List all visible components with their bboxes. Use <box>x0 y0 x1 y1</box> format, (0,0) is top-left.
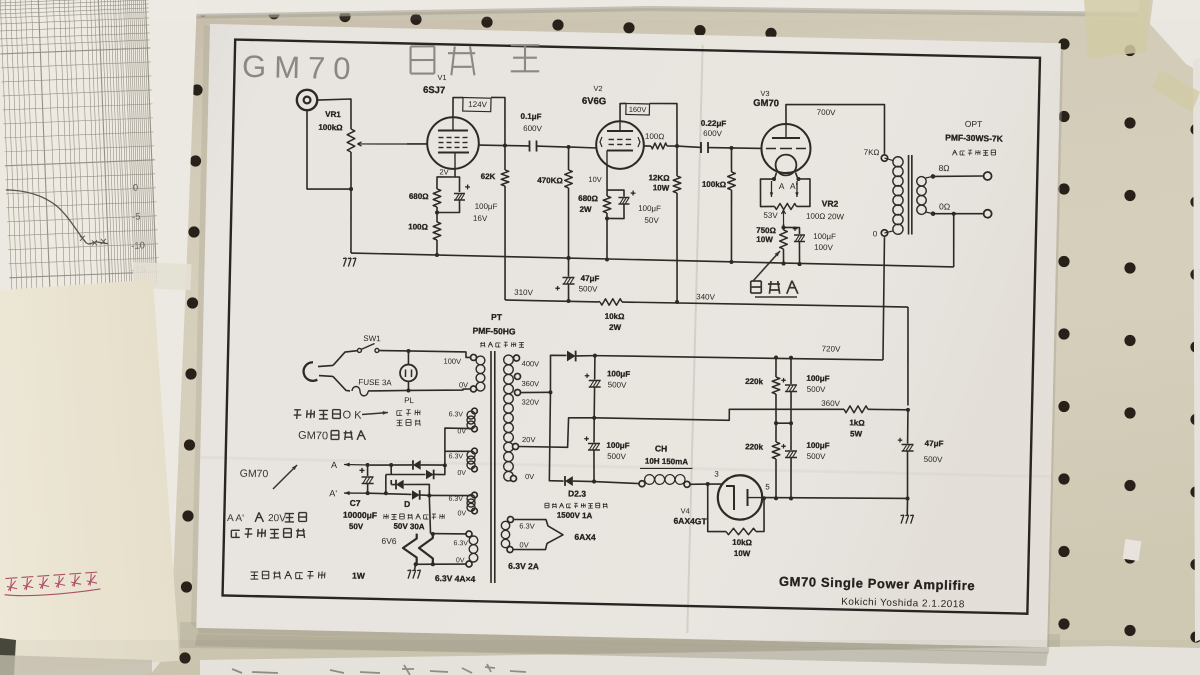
V2 internal electrodes <box>607 130 633 131</box>
wire D2.3 out to choke <box>594 482 639 484</box>
resistor 100k grid leak V3 <box>731 148 732 172</box>
ground bus <box>351 253 954 267</box>
node wiper <box>782 224 784 227</box>
wire 20V tap <box>519 416 595 448</box>
wire VR1 node to ground bus <box>350 189 353 253</box>
OPT primary winding <box>884 158 893 160</box>
resistor 1k 5W <box>844 405 868 413</box>
secondary 8ohm tap <box>926 176 933 178</box>
diode D1b row2 <box>390 465 393 475</box>
pennant outline <box>513 519 564 551</box>
tape diagonal right <box>1152 70 1200 112</box>
tube V3 GM70 <box>761 123 811 173</box>
OPT primary top terminal <box>881 155 888 162</box>
tape on left papers <box>133 262 192 290</box>
shadow band under main paper bottom <box>180 622 1060 660</box>
resistor 470K grid leak <box>568 147 569 170</box>
node 720V first <box>593 354 597 358</box>
capacitor 47uF 500V output <box>907 410 908 444</box>
fuse FUSE 3A <box>352 386 368 396</box>
capacitor 0.22uF coupling <box>677 146 701 147</box>
node 360V/340V <box>906 408 910 412</box>
diode D rect <box>567 351 576 362</box>
capacitor 100uF 16V V1 bypass <box>455 177 460 192</box>
red handwritten note <box>3 572 100 598</box>
resistor 100ohm stopper <box>644 145 651 147</box>
resistor 220k (2) <box>775 423 778 442</box>
node V1 plate <box>503 143 507 147</box>
capacitor 100uF 100V <box>783 227 799 234</box>
capacitor 100uF 500V (4) <box>790 423 791 450</box>
node d1 out <box>443 463 447 467</box>
wire A-prime line with arrow <box>344 492 368 495</box>
wire to W3 terminal <box>429 495 471 497</box>
PT HV secondary winding <box>504 355 514 365</box>
handwritten note adjust (kanji) w/ arrow <box>753 250 780 281</box>
V3 filament circle <box>775 154 796 175</box>
wire heater bottom lead <box>416 563 466 566</box>
node A-prime / heater <box>427 493 431 497</box>
node 12K bottom <box>675 300 679 304</box>
wire OPT bottom to 720V rail (crossings) <box>882 237 886 360</box>
wire to W1 0V <box>444 428 471 466</box>
node coupling/470K <box>566 145 570 149</box>
main schematic paper shadow <box>198 29 1063 653</box>
node V3 grid / 100k <box>729 146 733 150</box>
wire 320V up to diode <box>550 355 567 393</box>
wire 62K to 310V rail (crosses gnd bus) <box>502 186 507 300</box>
wire 340V rail down to 360V node <box>906 307 910 406</box>
input jack J1 <box>297 90 318 111</box>
wire to V3 <box>731 147 761 150</box>
wire jack sleeve down <box>305 110 353 190</box>
dark bottom-left corner <box>0 638 16 675</box>
resistor 100ohm V1 <box>433 222 441 240</box>
wire box to 12K column <box>648 103 677 146</box>
wire to node <box>436 207 438 213</box>
ground at 47uF <box>906 498 908 514</box>
HV taps <box>513 355 519 361</box>
V2 cathode network <box>606 166 607 197</box>
PT heater windings 6.3V x3 <box>472 408 478 414</box>
wire 20V line to 360V jog <box>594 404 844 424</box>
winding W4 6V6 heaters <box>466 531 472 537</box>
secondary 0ohm tap <box>925 212 933 214</box>
capacitor 0.1uF coupling <box>505 144 529 147</box>
potentiometer VR2 on box bottom <box>774 203 796 210</box>
wire d2 branch down to A-prime <box>384 474 387 493</box>
filament box <box>760 179 775 207</box>
wire V1 plate to node <box>479 144 505 147</box>
tube V1 6SJ7 <box>427 117 480 170</box>
wire SW1 to winding <box>379 349 408 352</box>
node 47uF-A top <box>566 256 570 260</box>
wire to V2 grid <box>569 147 597 148</box>
mid tie node <box>774 421 778 425</box>
V2 plate top lead <box>620 103 626 121</box>
wire node down to 6V6 heater lead <box>428 495 431 533</box>
OPT primary bottom terminal <box>881 230 888 237</box>
V4 internals <box>725 486 734 510</box>
left white backing paper <box>0 0 197 675</box>
tube V2 6V6G <box>596 121 645 170</box>
node jack/VR1 ground <box>349 187 353 191</box>
capacitor 47uF 500V decoupling <box>567 258 570 277</box>
capacitor 100uF 500V (1) <box>593 356 596 380</box>
wire 320V tap <box>521 392 551 394</box>
B+ rail 310V/340V <box>505 299 600 302</box>
V1 plate top lead <box>453 97 463 117</box>
OPT secondary winding <box>917 176 927 186</box>
bottom neighbour paper strip <box>200 646 1200 675</box>
VR1 wiper arrow <box>357 143 407 145</box>
resistor 10k 10W bypass <box>707 484 727 532</box>
wire jack to VR1 top <box>317 98 352 129</box>
paper crease <box>687 45 702 633</box>
wire 12K to 340V rail <box>675 193 680 302</box>
small white scrap right <box>1123 539 1142 561</box>
VR2 wiper arrow up <box>782 210 785 224</box>
arrows A A' in box <box>770 181 773 197</box>
wire fuse to winding <box>368 390 408 392</box>
response curve on graph paper <box>6 186 108 248</box>
diode D2.3 <box>564 476 567 486</box>
wire VR1 bottom <box>350 152 352 189</box>
capacitor 100uF 50V V2 bypass <box>607 190 624 197</box>
diode D1a <box>412 460 414 470</box>
resistor 680ohm V1 cathode <box>433 189 441 207</box>
wire secondary 0 to ground bus <box>953 214 955 267</box>
switch SW1 <box>357 348 361 352</box>
V3 plate 700V line <box>785 102 886 154</box>
V3 plate bar <box>772 137 800 138</box>
tube V4 6AX4GT <box>717 475 762 520</box>
note: resistor wattage (kanji) 1W <box>250 571 258 573</box>
ground 6V6 heaters <box>414 564 415 570</box>
capacitor 100uF 500V (2) <box>593 418 596 443</box>
node V2 out <box>675 144 679 148</box>
V1 cathode network: wire <box>437 168 455 189</box>
node secondary ground drop <box>952 212 956 216</box>
top-right corner paper <box>1150 0 1200 72</box>
ground symbol main bus <box>343 257 346 260</box>
filament leads <box>774 172 776 179</box>
choke CH <box>639 481 645 487</box>
cream paper (bottom-left) <box>0 280 180 674</box>
resistor 750ohm 10W <box>779 230 787 249</box>
pegboard holes <box>197 5 208 16</box>
diode D1c row3 <box>390 474 392 476</box>
handwritten pencil name (kanji) <box>410 46 411 73</box>
bus junction dots <box>435 253 439 257</box>
PT core <box>486 351 497 583</box>
label box 124V <box>463 98 491 112</box>
resistor 12K 10W <box>676 146 677 176</box>
mains plug <box>302 362 318 383</box>
resistor 680ohm 2W <box>603 196 611 213</box>
top neighbour paper sliver <box>186 0 1140 16</box>
resistor 10k 2W <box>600 298 622 305</box>
label box 160V <box>626 103 650 115</box>
wire wiper to V1 grid <box>407 142 428 145</box>
potentiometer VR1 <box>347 129 355 152</box>
handwritten note (naku tomo OK) w/ arrow <box>294 409 301 411</box>
resistor 220k (1) <box>775 358 778 378</box>
graph paper (top-left) <box>0 0 160 290</box>
schematic border frame <box>223 40 1040 614</box>
wire 124V box to plate node <box>490 97 506 145</box>
wire A-line with arrow <box>344 463 370 466</box>
neon pilot lamp PL <box>407 351 410 365</box>
capacitor C7 10000uF <box>366 465 369 476</box>
diode D1d on A-prime line <box>368 493 412 494</box>
wire V4 cathode line <box>761 495 908 501</box>
PT primary winding 100V <box>470 354 476 360</box>
wire choke to V4 <box>690 484 708 485</box>
wire to W2 6.3V <box>445 451 472 452</box>
wire 320V node down to D2.3 <box>548 392 565 481</box>
capacitor 100uF 500V (3) <box>790 358 791 384</box>
winding W5 6AX4 heater <box>507 516 513 522</box>
tape top-right <box>1084 0 1150 58</box>
wire plug to SW1 <box>333 350 357 366</box>
right edge paper sliver <box>1193 58 1200 642</box>
OPT core <box>907 155 911 235</box>
720V rail <box>595 353 883 362</box>
wire plug to fuse <box>333 376 351 390</box>
resistor 62K plate load <box>504 146 505 171</box>
6V6 heater chevrons <box>431 533 466 534</box>
schematic paper (rotated group) <box>196 24 1061 647</box>
V1 internal electrodes <box>438 130 468 131</box>
V3 grid dashes <box>766 147 776 149</box>
